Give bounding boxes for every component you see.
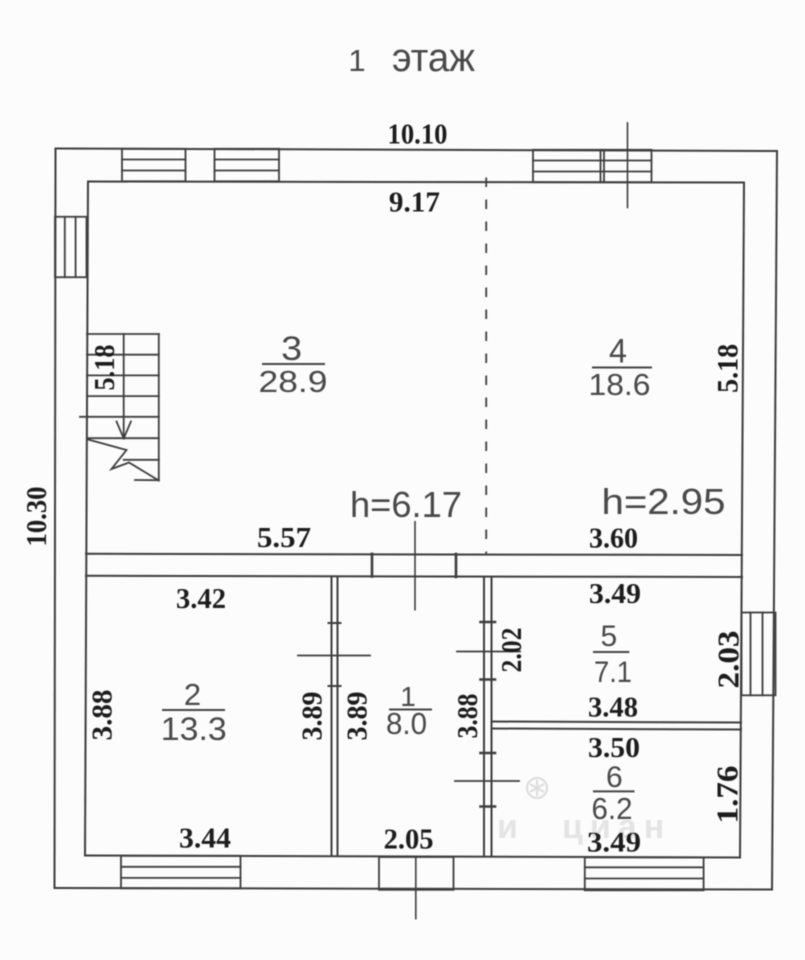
svg-text:h=2.95: h=2.95 <box>602 481 726 522</box>
svg-text:2.05: 2.05 <box>384 825 434 856</box>
svg-text:8.0: 8.0 <box>386 706 427 741</box>
svg-text:3.49: 3.49 <box>587 828 641 859</box>
svg-text:3.42: 3.42 <box>176 584 226 615</box>
svg-text:5.18: 5.18 <box>711 344 744 393</box>
svg-text:3.89: 3.89 <box>343 692 374 741</box>
svg-text:6: 6 <box>606 761 623 794</box>
svg-text:3.44: 3.44 <box>179 824 231 855</box>
svg-text:h=6.17: h=6.17 <box>350 484 462 525</box>
svg-text:7.1: 7.1 <box>594 656 632 689</box>
svg-text:3.50: 3.50 <box>588 733 640 764</box>
svg-text:2.02: 2.02 <box>497 628 528 673</box>
svg-text:3.49: 3.49 <box>589 579 641 610</box>
svg-text:3.89: 3.89 <box>298 692 329 741</box>
svg-text:1.76: 1.76 <box>710 766 745 824</box>
svg-text:5.18: 5.18 <box>90 345 121 391</box>
svg-text:3.88: 3.88 <box>453 694 484 739</box>
svg-text:6.2: 6.2 <box>592 791 633 826</box>
svg-text:и: и <box>497 808 522 846</box>
svg-text:3: 3 <box>281 330 302 368</box>
svg-text:2: 2 <box>184 677 201 712</box>
svg-text:3.48: 3.48 <box>588 693 638 724</box>
svg-text:10.10: 10.10 <box>388 119 448 151</box>
svg-text:3.88: 3.88 <box>88 690 119 741</box>
svg-text:13.3: 13.3 <box>161 711 227 747</box>
svg-text:18.6: 18.6 <box>589 367 651 402</box>
svg-text:2.03: 2.03 <box>711 631 746 689</box>
svg-text:1: 1 <box>348 43 365 78</box>
svg-text:этаж: этаж <box>392 36 475 80</box>
svg-text:10.30: 10.30 <box>21 487 53 547</box>
svg-text:4: 4 <box>609 333 627 371</box>
svg-text:3.60: 3.60 <box>589 524 638 555</box>
svg-text:28.9: 28.9 <box>259 364 328 399</box>
svg-text:5.57: 5.57 <box>257 523 311 554</box>
svg-text:5: 5 <box>601 620 618 653</box>
svg-text:9.17: 9.17 <box>389 187 440 219</box>
